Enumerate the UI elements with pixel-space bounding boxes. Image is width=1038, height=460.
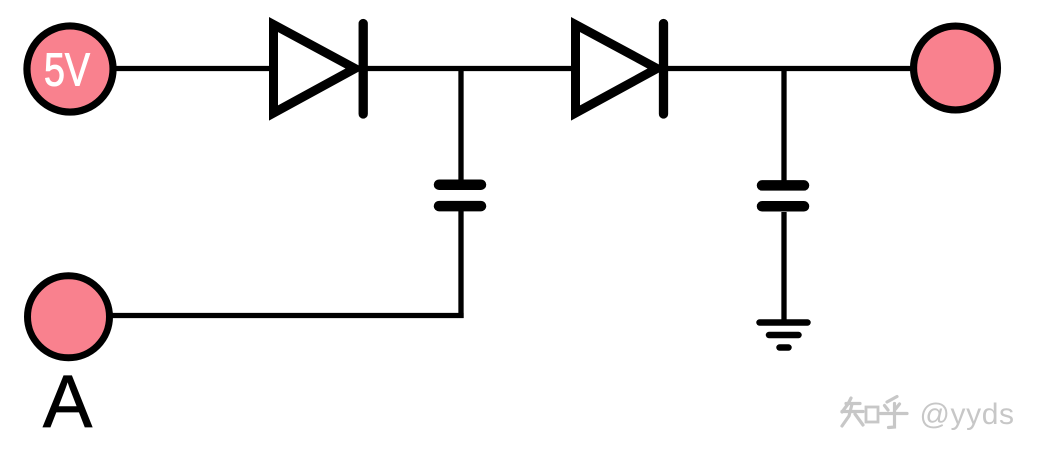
ground bar 1 xyxy=(760,319,808,326)
diode D2 triangle xyxy=(576,25,658,114)
svg-text:@yyds: @yyds xyxy=(920,398,1015,431)
node V1 / wire down to capacitor C1 xyxy=(458,69,463,182)
wire W2 (diode D1 to diode D2) xyxy=(362,66,576,71)
watermark hanzi 知 xyxy=(842,398,878,426)
svg-text:5V: 5V xyxy=(44,43,90,95)
capacitor C1 top plate xyxy=(439,179,481,190)
wire W3 (diode D2 to output terminal) xyxy=(664,66,912,71)
wire W1 (5V terminal to diode D1) xyxy=(108,66,272,71)
terminal A (pink circle, bottom left) xyxy=(28,276,110,358)
terminal 5V (pink circle) xyxy=(27,26,113,112)
ground bar 3 xyxy=(780,344,789,351)
watermark 知乎 @yyds white emboss layer xyxy=(843,399,1016,434)
ground bar 2 xyxy=(769,332,799,339)
svg-text:A: A xyxy=(43,360,93,443)
wire bottom (corner to terminal A) xyxy=(108,313,464,318)
wire from C1 down to corner xyxy=(458,211,463,318)
diode D1 cathode bar xyxy=(359,24,368,115)
capacitor C2 bottom plate xyxy=(762,201,804,212)
diode D2 cathode bar xyxy=(659,24,668,115)
wire from C2 down to ground xyxy=(781,212,786,321)
diode D1 triangle xyxy=(274,25,356,114)
capacitor C1 bottom plate xyxy=(439,201,481,212)
terminal OUT (pink circle, top right) xyxy=(914,26,998,110)
watermark hanzi 乎 xyxy=(881,397,908,428)
node V2 / wire down to capacitor C2 xyxy=(781,69,786,183)
capacitor C2 top plate xyxy=(762,180,804,191)
